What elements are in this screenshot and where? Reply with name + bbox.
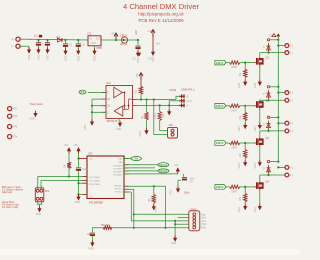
pin labels of IC2 bbox=[107, 93, 111, 115]
ground bbox=[258, 204, 262, 210]
wire PGD to CON2 bbox=[175, 223, 189, 225]
ground bbox=[176, 186, 180, 192]
wire bbox=[77, 40, 79, 43]
wire bbox=[47, 45, 49, 47]
pad 2-2 bbox=[285, 91, 289, 95]
svg-text:LED1: LED1 bbox=[121, 34, 128, 37]
connector CON1 pin B bbox=[179, 94, 185, 98]
net label DMX2 bbox=[158, 169, 169, 173]
diode D5 bbox=[267, 165, 271, 174]
svg-text:RX/RC5: RX/RC5 bbox=[114, 188, 123, 190]
wire bbox=[78, 171, 80, 195]
svg-text:GND: GND bbox=[30, 118, 36, 121]
wire bus B bbox=[133, 99, 177, 101]
wire bottom rail bbox=[92, 227, 188, 229]
diode D4 bbox=[267, 121, 271, 130]
svg-text:GND: GND bbox=[254, 126, 257, 132]
wire bbox=[29, 38, 31, 41]
ground bbox=[76, 194, 80, 200]
wire RE bbox=[92, 98, 106, 100]
svg-text:GND: GND bbox=[78, 56, 81, 62]
junction bbox=[91, 105, 93, 107]
junction bbox=[77, 39, 79, 41]
wire GND pin bbox=[169, 100, 179, 102]
transceiver IC2 box bbox=[106, 86, 133, 119]
ground bbox=[258, 123, 262, 129]
svg-text:RC1/AN5: RC1/AN5 bbox=[113, 167, 123, 170]
pin labels of IC3 bbox=[89, 158, 123, 199]
net label AN bbox=[131, 157, 142, 161]
wire enable bus bbox=[91, 99, 93, 119]
ground bbox=[118, 121, 122, 127]
svg-text:GND: GND bbox=[28, 54, 31, 60]
resistor R7 10k bbox=[152, 195, 155, 204]
wire bbox=[38, 203, 42, 205]
wire drain bbox=[259, 131, 261, 137]
svg-text:GND: GND bbox=[116, 128, 122, 131]
wire bbox=[152, 34, 154, 50]
wire RX to IC2 bbox=[88, 92, 106, 94]
svg-text:GND: GND bbox=[162, 112, 165, 118]
wire +12V rail bbox=[277, 36, 279, 161]
wire bbox=[244, 78, 246, 80]
svg-text:3-4 open = high: 3-4 open = high bbox=[2, 207, 19, 209]
svg-text:GND: GND bbox=[36, 213, 42, 216]
wire RA0 bbox=[124, 158, 131, 160]
wire bbox=[40, 181, 42, 190]
junction bbox=[267, 174, 269, 176]
svg-text:DE: DE bbox=[107, 106, 111, 108]
svg-text:C10: C10 bbox=[148, 58, 153, 61]
svg-text:TP1: TP1 bbox=[13, 108, 18, 111]
wire regulator gnd bbox=[94, 46, 96, 49]
svg-text:Active Drive: Active Drive bbox=[2, 201, 15, 204]
junction bbox=[267, 52, 269, 54]
net label DMX4 bbox=[215, 185, 226, 190]
ground bbox=[243, 204, 247, 210]
voltage regulator IC1 7805 bbox=[88, 36, 102, 46]
svg-text:Both open = mode: Both open = mode bbox=[2, 186, 22, 189]
svg-text:4 Channel DMX Driver: 4 Channel DMX Driver bbox=[123, 2, 199, 11]
junction bbox=[137, 39, 139, 41]
supply +5V bbox=[67, 147, 71, 154]
wire from -input bbox=[20, 45, 29, 47]
capacitor C1 bbox=[36, 43, 41, 46]
wire bbox=[177, 180, 179, 186]
junction bbox=[277, 116, 279, 118]
junction bbox=[91, 111, 93, 113]
supply +5V bbox=[151, 30, 155, 37]
transistor Q4 bbox=[254, 181, 263, 191]
wire bbox=[137, 40, 139, 45]
connector CON2 pin 3 bbox=[193, 220, 196, 223]
resistor R22 47k bbox=[244, 112, 247, 121]
svg-text:JP2: JP2 bbox=[45, 190, 50, 193]
driver triangle of IC2 bbox=[114, 106, 123, 116]
svg-text:+5V: +5V bbox=[174, 164, 179, 167]
capacitor C7 bbox=[76, 168, 81, 171]
wire bbox=[65, 47, 67, 49]
wire OSC stub bbox=[79, 182, 88, 184]
svg-text:GND: GND bbox=[137, 57, 140, 63]
ground bbox=[90, 240, 94, 246]
wire gate bbox=[240, 62, 254, 64]
svg-text:http://picprojects.org.uk: http://picprojects.org.uk bbox=[138, 12, 184, 17]
jumper JP1 pin 1 bbox=[171, 129, 174, 132]
svg-text:DMX1: DMX1 bbox=[159, 163, 167, 167]
svg-text:DMX4: DMX4 bbox=[216, 185, 224, 189]
inductor L1 bbox=[39, 35, 42, 38]
ground bbox=[76, 49, 80, 55]
wire bbox=[68, 153, 70, 162]
wire source bbox=[259, 109, 261, 123]
wire DMX3 net bbox=[124, 170, 158, 172]
supply +5V bbox=[114, 33, 118, 40]
junction bbox=[77, 182, 79, 184]
pad TP2 bbox=[8, 114, 12, 118]
ground bbox=[92, 49, 96, 55]
svg-text:GND: GND bbox=[65, 56, 68, 62]
wire bbox=[78, 159, 80, 168]
diode D4 terminal ring bbox=[267, 116, 269, 118]
resistor R24 47k bbox=[244, 193, 247, 202]
svg-text:GND: GND bbox=[254, 83, 257, 89]
wire bbox=[244, 187, 246, 194]
net label DMX1 bbox=[158, 163, 169, 167]
wire bbox=[38, 40, 40, 42]
wire bus A bbox=[133, 104, 180, 106]
pad X1-1 bbox=[16, 37, 20, 41]
wire bbox=[47, 40, 49, 42]
jumper JP2 pin 4 bbox=[40, 197, 43, 200]
svg-text:GND: GND bbox=[139, 131, 142, 137]
wire +12V row bbox=[270, 116, 279, 118]
wire bbox=[77, 47, 79, 49]
diode D2 terminal ring bbox=[267, 39, 269, 41]
pad 4-2 bbox=[285, 166, 289, 170]
svg-text:JP1: JP1 bbox=[169, 124, 174, 127]
power LED LED1 bbox=[121, 37, 127, 43]
wire +12V row bbox=[270, 39, 279, 41]
resistor R4 bbox=[145, 112, 148, 120]
svg-text:GND: GND bbox=[238, 207, 241, 213]
wire bbox=[37, 200, 39, 204]
wire supply spur bbox=[278, 92, 285, 94]
svg-text:GND: GND bbox=[91, 42, 97, 45]
wire 5V rail bbox=[101, 39, 138, 41]
svg-text:+5V: +5V bbox=[136, 73, 139, 78]
wire DMX1 net bbox=[124, 164, 158, 166]
svg-text:GND: GND bbox=[152, 56, 155, 62]
wire Vdd to CON2 bbox=[178, 217, 189, 219]
svg-text:RC0/AN4: RC0/AN4 bbox=[113, 164, 123, 167]
diode D3 terminal ring bbox=[267, 86, 269, 88]
svg-text:Gnd: Gnd bbox=[187, 99, 192, 103]
pad 3-1 bbox=[285, 129, 289, 133]
wire bbox=[28, 46, 30, 47]
wire gate bbox=[240, 142, 254, 144]
capacitor C9 bbox=[90, 233, 95, 236]
ground bbox=[37, 206, 41, 212]
svg-text:TP3: TP3 bbox=[13, 126, 18, 129]
svg-text:120R: 120R bbox=[154, 113, 157, 119]
junction bbox=[244, 62, 246, 64]
wire gate bbox=[240, 105, 254, 107]
wire bbox=[39, 204, 41, 206]
resistor R1 10k bbox=[67, 162, 70, 169]
wire bbox=[183, 174, 185, 177]
wire +12V row bbox=[270, 161, 279, 163]
wire bbox=[133, 189, 135, 228]
resistor R3 1k bbox=[139, 86, 142, 94]
supply +12V rail top bbox=[276, 33, 280, 36]
svg-text:+5V: +5V bbox=[73, 144, 78, 147]
svg-text:+5V: +5V bbox=[64, 144, 69, 147]
wire RA4 bbox=[41, 180, 87, 182]
svg-text:IC3: IC3 bbox=[88, 152, 93, 156]
junction bbox=[277, 45, 279, 47]
pad 1-1 bbox=[285, 51, 289, 55]
svg-text:GND: GND bbox=[75, 201, 81, 204]
net label DMX3 bbox=[215, 141, 226, 146]
junction bbox=[133, 227, 135, 229]
pin stubs of IC2 bbox=[102, 93, 138, 113]
connector CON2 pin 1 bbox=[193, 213, 196, 216]
junction bbox=[277, 161, 279, 163]
note text block 1 bbox=[2, 186, 23, 194]
microcontroller IC3 box bbox=[87, 156, 124, 199]
wire bbox=[137, 49, 139, 51]
svg-text:R5 1k: R5 1k bbox=[121, 43, 128, 46]
svg-text:DMX2: DMX2 bbox=[159, 169, 167, 173]
svg-text:OUT: OUT bbox=[96, 38, 102, 41]
svg-text:PGC: PGC bbox=[201, 227, 206, 230]
ground test point bbox=[33, 111, 37, 117]
svg-text:IC2: IC2 bbox=[107, 81, 112, 85]
junction bbox=[153, 98, 155, 100]
wire bbox=[38, 45, 40, 47]
svg-text:GND: GND bbox=[38, 54, 41, 60]
diode D2 bbox=[267, 43, 271, 52]
wire bbox=[115, 39, 117, 41]
svg-text:GND: GND bbox=[47, 54, 50, 60]
ground bbox=[258, 80, 262, 86]
svg-text:1-2 closed = dimmer: 1-2 closed = dimmer bbox=[2, 189, 23, 192]
svg-text:TX/RC4: TX/RC4 bbox=[115, 191, 124, 193]
pad TP1 bbox=[8, 107, 12, 111]
svg-text:100n: 100n bbox=[82, 168, 88, 171]
transistor Q3 bbox=[254, 137, 263, 147]
wire bbox=[226, 105, 229, 107]
resistor R2 120R bbox=[158, 112, 161, 121]
wire supply spur bbox=[278, 166, 285, 168]
junction bbox=[174, 223, 176, 225]
svg-text:GND: GND bbox=[155, 206, 158, 212]
wire bbox=[244, 158, 246, 160]
junction bbox=[46, 39, 48, 41]
wire bbox=[146, 120, 148, 129]
svg-text:TP2: TP2 bbox=[13, 115, 18, 118]
jumper JP2 pin 3 bbox=[36, 197, 39, 200]
junction bbox=[153, 185, 155, 187]
wire from +input bbox=[20, 38, 30, 40]
connector CON2 box bbox=[189, 211, 200, 231]
wire bbox=[146, 100, 148, 113]
resistor R21 47k bbox=[244, 69, 247, 78]
wire bbox=[244, 143, 246, 150]
junction bbox=[64, 39, 66, 41]
svg-text:CON1: CON1 bbox=[169, 88, 177, 92]
junction bbox=[277, 122, 279, 124]
svg-text:PCB Rev E 11/12/2009: PCB Rev E 11/12/2009 bbox=[138, 18, 184, 23]
supply +12V triangle bbox=[272, 34, 276, 37]
pad 3-2 bbox=[285, 121, 289, 125]
wire bbox=[159, 121, 161, 131]
net label DMX1 bbox=[215, 60, 226, 65]
pad TP4 bbox=[8, 135, 12, 139]
pad 1-2 bbox=[285, 44, 289, 48]
junction bbox=[68, 175, 70, 177]
wire to jumper bbox=[153, 100, 155, 135]
wire bbox=[244, 63, 246, 70]
resistor R13 330R bbox=[230, 141, 241, 144]
wire bbox=[226, 142, 229, 144]
wire source bbox=[259, 147, 261, 161]
jumper JP2 box bbox=[35, 188, 44, 202]
transistor Q2 bbox=[254, 100, 263, 110]
svg-text:330R: 330R bbox=[231, 66, 237, 69]
pad TP3 bbox=[8, 125, 12, 129]
junction bbox=[174, 220, 176, 222]
junction bbox=[244, 105, 246, 107]
junction bbox=[37, 39, 39, 41]
transistor Q1 bbox=[254, 57, 263, 67]
receiver triangle of IC2 bbox=[114, 87, 123, 98]
wire bbox=[226, 186, 229, 188]
wire bbox=[268, 99, 270, 100]
svg-text:+5V: +5V bbox=[135, 30, 138, 35]
wire bbox=[154, 134, 168, 136]
wire IC2 gnd pin bbox=[118, 119, 120, 122]
svg-text:A: A bbox=[187, 103, 189, 107]
wire drain row bbox=[260, 99, 285, 101]
svg-text:(-): (-) bbox=[11, 44, 14, 48]
svg-text:100n: 100n bbox=[184, 192, 190, 195]
svg-text:L1: L1 bbox=[34, 34, 38, 38]
ground bbox=[258, 160, 262, 166]
junction bbox=[277, 166, 279, 168]
wire bbox=[160, 130, 168, 132]
junction bbox=[145, 98, 147, 100]
wire input rail bbox=[30, 38, 88, 41]
wire Gnd to CON2 bbox=[131, 220, 189, 222]
wire drain row bbox=[260, 174, 285, 176]
ground bbox=[243, 160, 247, 166]
svg-text:Test point: Test point bbox=[30, 102, 43, 106]
capacitor C3 bbox=[63, 44, 68, 47]
supply +5V bbox=[76, 147, 80, 154]
svg-text:IC1: IC1 bbox=[88, 32, 93, 36]
pin Vdd bbox=[79, 158, 88, 160]
wire source bbox=[259, 190, 261, 204]
svg-text:RA2/INT: RA2/INT bbox=[114, 184, 123, 187]
junction bbox=[77, 157, 79, 159]
net label RX bbox=[79, 90, 86, 94]
svg-text:330R: 330R bbox=[231, 191, 237, 194]
ground bbox=[152, 204, 156, 210]
wire bbox=[37, 177, 39, 190]
junction bbox=[277, 86, 279, 88]
wire bbox=[244, 121, 246, 123]
svg-text:(also test): (also test) bbox=[2, 191, 12, 194]
wire DE bbox=[92, 105, 106, 107]
wire drain bbox=[259, 53, 261, 57]
jumper JP2 pin 2 bbox=[40, 189, 43, 192]
wire drain bbox=[259, 175, 261, 181]
svg-text:DMX2: DMX2 bbox=[216, 104, 224, 108]
svg-text:DMX1: DMX1 bbox=[216, 61, 224, 65]
connector CON2 pin 2 bbox=[193, 216, 196, 219]
svg-text:OSC1/RA5: OSC1/RA5 bbox=[89, 176, 101, 179]
wire drain bbox=[259, 99, 261, 102]
ground bbox=[144, 128, 148, 134]
wire +12V row bbox=[270, 86, 279, 88]
connector CON1 pin A bbox=[179, 104, 185, 108]
svg-text:GND: GND bbox=[254, 207, 257, 213]
pin stubs of IC3 bbox=[83, 159, 129, 195]
net label DMX2 bbox=[215, 104, 226, 109]
ground bbox=[173, 236, 177, 242]
wire Vss bbox=[79, 194, 88, 196]
junction bbox=[164, 227, 166, 229]
junction bbox=[115, 39, 117, 41]
ground bbox=[243, 80, 247, 86]
wire gate bbox=[240, 186, 254, 188]
connector CON1 pin Gnd bbox=[179, 99, 185, 103]
svg-text:GND: GND bbox=[254, 163, 257, 169]
ground bbox=[167, 109, 171, 115]
ground bbox=[136, 51, 140, 57]
resistor R14 330R bbox=[230, 185, 241, 188]
wire bbox=[68, 169, 70, 177]
junction bbox=[277, 39, 279, 41]
wire bbox=[140, 77, 142, 87]
svg-text:RC2/AN6: RC2/AN6 bbox=[113, 170, 123, 173]
wire to pin B bbox=[176, 96, 179, 99]
wire bbox=[40, 200, 42, 204]
wire bbox=[91, 236, 93, 241]
wire bbox=[268, 130, 270, 131]
resistor R11 330R bbox=[230, 61, 241, 64]
connector CON2 pin 5 bbox=[193, 226, 196, 229]
wire bbox=[165, 186, 167, 228]
resistor R6 bbox=[103, 226, 112, 229]
svg-text:GND: GND bbox=[238, 163, 241, 169]
svg-text:B: B bbox=[187, 94, 189, 98]
junction bbox=[244, 186, 246, 188]
junction bbox=[140, 98, 142, 100]
pad 2-1 bbox=[285, 98, 289, 102]
wire supply spur bbox=[278, 45, 285, 47]
junction bbox=[133, 213, 135, 215]
svg-text:(+): (+) bbox=[11, 37, 14, 41]
svg-text:330R: 330R bbox=[231, 109, 237, 112]
ground bbox=[27, 47, 31, 53]
resistor R23 47k bbox=[244, 150, 247, 159]
svg-text:MCLR/RA3: MCLR/RA3 bbox=[89, 183, 101, 186]
capacitor C2 bbox=[45, 43, 50, 46]
jumper JP1 pin 2 bbox=[171, 133, 174, 136]
